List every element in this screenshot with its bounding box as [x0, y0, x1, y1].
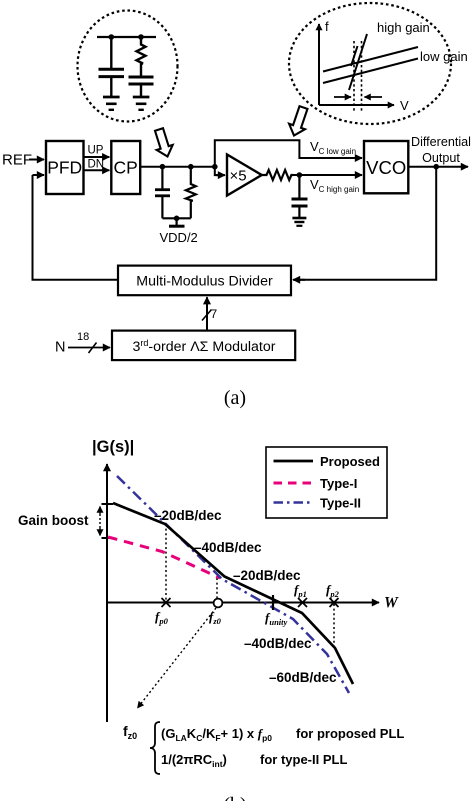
- dotted line fp2: [333, 604, 335, 647]
- svg-text:UP: UP: [88, 145, 104, 157]
- node junction cap: [160, 164, 166, 170]
- f axis: [318, 24, 320, 105]
- resistor (circle right branch): [137, 37, 146, 76]
- node junction res: [188, 164, 194, 170]
- svg-text:low gain: low gain: [420, 49, 468, 64]
- node right in circle: [138, 34, 144, 40]
- wire feedback left: [33, 175, 119, 280]
- marker x fp0: [162, 598, 171, 607]
- hollow arrow 1: [155, 128, 173, 156]
- ground (high gain filter): [292, 218, 306, 226]
- wire feedback into PFD: [33, 174, 45, 176]
- svg-text:VCO: VCO: [366, 157, 406, 178]
- bus slash 7: [202, 310, 212, 321]
- inward arrow right: [365, 96, 383, 98]
- svg-text:Multi-Modulus Divider: Multi-Modulus Divider: [136, 273, 273, 289]
- svg-text:Type-I: Type-I: [320, 476, 357, 491]
- svg-text:–40dB/dec: –40dB/dec: [244, 636, 312, 651]
- svg-text:V: V: [400, 98, 409, 113]
- marker tick funity: [272, 595, 274, 610]
- wire N input: [68, 347, 110, 349]
- resistor R (after amp): [262, 170, 294, 180]
- svg-text:–60dB/dec: –60dB/dec: [269, 670, 337, 685]
- block Sigma-Delta Modulator: [112, 331, 295, 361]
- y axis: [106, 464, 108, 722]
- svg-text:for proposed PLL: for proposed PLL: [296, 726, 404, 741]
- svg-text:REF: REF: [2, 152, 32, 169]
- svg-text:(b): (b): [223, 794, 246, 801]
- svg-text:Proposed: Proposed: [320, 454, 380, 469]
- node high gain: [297, 172, 303, 178]
- svg-text:Type-II: Type-II: [320, 496, 361, 511]
- wire feedback right: [299, 167, 436, 280]
- capacitor (high gain filter): [292, 175, 308, 217]
- block CP: [111, 141, 140, 194]
- legend type-II: [274, 501, 314, 504]
- VDD/2 rail symbol: [176, 218, 178, 225]
- marker x fp1: [298, 598, 307, 607]
- svg-text:–40dB/dec: –40dB/dec: [194, 540, 262, 555]
- curve black Proposed: [113, 503, 353, 684]
- marker o fz0: [214, 599, 223, 608]
- x axis: [107, 602, 379, 604]
- wire VCO output: [408, 166, 468, 168]
- tick lower gain: [102, 537, 114, 539]
- legend box: [266, 447, 387, 518]
- svg-text:–20dB/dec: –20dB/dec: [154, 508, 222, 523]
- svg-text:Gain boost: Gain boost: [18, 513, 89, 528]
- wire high-gain path: [293, 174, 362, 176]
- high gain line: [349, 34, 367, 90]
- dashed vertical marker left: [353, 41, 355, 113]
- wire UP: [84, 156, 110, 158]
- dotted line fz0: [216, 578, 218, 598]
- block VCO: [364, 141, 408, 193]
- V axis: [319, 104, 394, 106]
- wire low-gain path: [215, 140, 356, 166]
- svg-text:VDD/2: VDD/2: [160, 230, 198, 245]
- node left in circle: [109, 34, 115, 40]
- svg-text:Output: Output: [422, 151, 460, 165]
- node amp input branch: [212, 164, 218, 170]
- svg-text:high gain: high gain: [377, 20, 430, 35]
- dotted arrow to formula: [138, 608, 217, 708]
- svg-text:3rd-order ΛΣ Modulator: 3rd-order ΛΣ Modulator: [133, 338, 276, 355]
- legend proposed: [274, 460, 314, 463]
- svg-text:(a): (a): [224, 387, 246, 409]
- node output: [433, 164, 439, 170]
- svg-text:DN: DN: [88, 159, 105, 171]
- ground (circle right branch): [133, 97, 150, 110]
- ground (circle left branch): [103, 97, 120, 110]
- svg-text:Differential: Differential: [411, 135, 471, 149]
- svg-text:×5: ×5: [230, 168, 247, 185]
- wire modulator to divider: [206, 297, 208, 330]
- legend type-I: [274, 482, 314, 485]
- wire into amplifier: [215, 167, 218, 175]
- svg-text:|G(s)|: |G(s)|: [92, 438, 134, 456]
- bus slash 18: [89, 343, 97, 354]
- hollow arrow 2: [289, 106, 307, 135]
- block Multi-Modulus Divider: [118, 266, 291, 296]
- svg-text:–20dB/dec: –20dB/dec: [233, 568, 301, 583]
- capacitor C1 (circle left branch): [99, 37, 125, 96]
- wire top rail in circle: [97, 36, 156, 38]
- tick upper gain: [102, 503, 114, 505]
- dashed circle left (loop filter detail): [78, 11, 178, 122]
- dotted line fp0: [165, 524, 167, 600]
- block PFD: [46, 141, 84, 194]
- wire CP output: [140, 166, 215, 168]
- low gain line lower: [323, 59, 418, 84]
- svg-text:7: 7: [211, 307, 218, 321]
- dashed vertical marker right: [361, 41, 363, 113]
- wire REF to PFD: [29, 159, 44, 161]
- svg-text:N: N: [55, 340, 65, 356]
- svg-text:18: 18: [77, 331, 89, 343]
- curve blue Type-II: [117, 476, 349, 693]
- wire bottom rail loop filter: [162, 217, 190, 219]
- dashed ellipse right (VCO gain detail): [289, 3, 451, 124]
- curve magenta Type-I: [108, 537, 220, 578]
- gain boost dotted arrow: [99, 510, 101, 532]
- node bottom rail: [174, 216, 180, 222]
- svg-text:for type-II PLL: for type-II PLL: [260, 752, 347, 767]
- svg-text:W: W: [384, 595, 399, 612]
- svg-text:PFD: PFD: [47, 158, 82, 178]
- high gain short segment: [351, 46, 358, 66]
- svg-text:f: f: [325, 19, 329, 34]
- svg-text:CP: CP: [114, 158, 138, 178]
- resistor (loop filter): [186, 167, 196, 219]
- wire DN: [84, 169, 110, 171]
- op-amp x5: [227, 155, 262, 196]
- capacitor (loop filter): [155, 167, 170, 219]
- inward arrow left: [334, 96, 351, 98]
- low gain line upper: [323, 47, 418, 72]
- capacitor C2 (circle right branch): [129, 77, 154, 96]
- marker x fp2: [330, 598, 339, 607]
- formula brace: [150, 722, 160, 774]
